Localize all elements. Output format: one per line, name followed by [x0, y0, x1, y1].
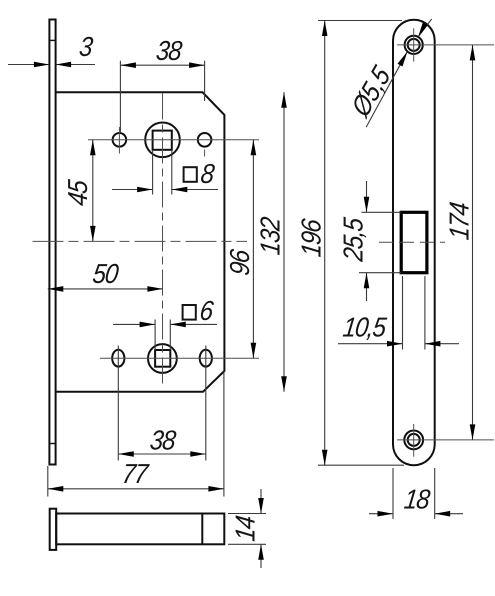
dimension 50: [48, 260, 163, 292]
dimension 77: [48, 372, 224, 497]
top-left screw hole: [113, 133, 127, 147]
spindle follower circle bottom: [148, 344, 177, 373]
svg-text:132: 132: [256, 215, 286, 257]
square hole 6mm: [155, 350, 170, 367]
dimension 196: [297, 21, 404, 466]
centerline through bottom holes: [100, 357, 259, 359]
dimension 38 top: [120, 37, 204, 133]
dimension 45: [64, 140, 96, 242]
bottom-left oval hole: [112, 350, 124, 367]
slot centerline dashed: [379, 241, 445, 243]
dimension 10.5: [338, 276, 459, 350]
bottom view faceplate bar: [50, 509, 57, 550]
dimension square 8: [112, 150, 218, 195]
bottom screw hole faceplate: [397, 424, 494, 457]
top-right screw hole: [198, 133, 212, 147]
dimension 3: [8, 33, 95, 68]
dimension 18: [369, 468, 463, 519]
bottom view inner edge: [201, 514, 203, 545]
dimension 96: [226, 140, 257, 358]
dimension 174: [445, 45, 475, 440]
vertical centerline spindle: [162, 94, 164, 387]
dashed horizontal centerline middle: [33, 240, 248, 242]
bottom view lock case: [56, 514, 224, 545]
dimension 14: [228, 489, 266, 568]
faceplate strip edge view: [49, 20, 55, 465]
dimension square 6: [113, 297, 217, 350]
svg-text:14: 14: [231, 514, 261, 543]
svg-text:25,5: 25,5: [339, 215, 369, 263]
svg-text:196: 196: [297, 217, 327, 259]
top screw hole faceplate: [397, 28, 494, 61]
centerline top-left hole: [118, 127, 120, 154]
svg-text:174: 174: [445, 201, 475, 242]
centerline top-right hole: [204, 150, 206, 157]
dimension 38 bottom: [118, 346, 206, 461]
svg-text:10,5: 10,5: [341, 313, 388, 343]
dimension 25.5: [339, 181, 401, 301]
lock body outline: [56, 92, 225, 392]
spindle follower circle top: [145, 123, 180, 158]
bottom-right oval hole: [200, 350, 212, 367]
centerline through top holes: [88, 139, 259, 141]
square hole 8mm: [153, 131, 172, 150]
latch slot: [401, 212, 427, 272]
leader diameter 5.5: [347, 19, 432, 127]
dimension 132: [256, 92, 287, 392]
faceplate front outline: [393, 20, 435, 465]
